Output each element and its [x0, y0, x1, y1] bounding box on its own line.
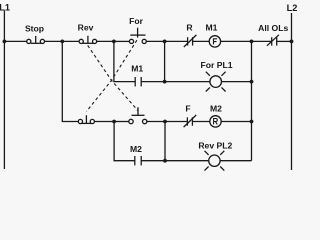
label Rev PL2 [198, 141, 232, 151]
pilot light Rev PL2 [205, 151, 225, 171]
node C3 junction dot [163, 120, 167, 124]
mechanical link For (dashed) [87, 40, 137, 111]
wire rung1 For to node C [146, 40, 164, 42]
svg-text:M1: M1 [206, 23, 218, 33]
relay contact M1 seal-in (NO) [135, 77, 141, 86]
node bus-rung4 junction dot [250, 120, 254, 124]
svg-text:M2: M2 [210, 103, 222, 113]
svg-text:Rev PL2: Rev PL2 [198, 141, 232, 151]
wire rung2 node C2 to lamp PL1 [165, 81, 210, 83]
wire vertical node B2 to rung5 [114, 122, 135, 161]
svg-text:M2: M2 [130, 144, 142, 154]
wire vertical node C3 to rung5 [164, 122, 166, 161]
wire rung4 Rev to node C3 [147, 121, 165, 123]
mechanical link Rev (dashed) [88, 45, 138, 110]
node D junction dot [250, 40, 254, 44]
wire rung5 M2 to node C4 [141, 160, 165, 162]
label M1 coil [206, 23, 218, 33]
wire vertical node B to rung2 [114, 41, 135, 81]
relay contact F (NC) [184, 115, 197, 127]
node A junction dot [60, 40, 64, 44]
wire rung1 Stop to node A [45, 40, 63, 42]
label R [186, 23, 193, 33]
svg-text:Stop: Stop [25, 23, 44, 33]
node B2 junction dot [112, 120, 116, 124]
label L2 [287, 3, 298, 13]
wire rung5 lamp PL2 to bus [220, 160, 251, 162]
relay contact M2 seal-in (NO) [135, 156, 141, 165]
label Rev [78, 23, 94, 33]
svg-text:M1: M1 [131, 64, 143, 74]
label For [129, 16, 143, 26]
power rail L2 [291, 13, 293, 170]
label L1 [0, 2, 10, 12]
wire rung2 M1 to node C2 [141, 81, 164, 83]
wire rung1 R to coil M1 [193, 40, 210, 42]
svg-text:For PL1: For PL1 [201, 60, 233, 70]
wire rung4 coil M2 to bus [221, 121, 251, 123]
node B junction dot [112, 40, 116, 44]
node bus-rung2 junction dot [250, 80, 254, 84]
wire rung2 lamp PL1 to bus [222, 81, 252, 83]
wire rung4 node B2 to Rev NO [114, 121, 129, 123]
overload contact All OLs (NC) [267, 35, 279, 46]
power rail L1 [3, 11, 5, 170]
node L1 junction dot [3, 40, 7, 44]
wire vertical node C to rung2 [164, 41, 166, 81]
svg-text:L1: L1 [0, 2, 10, 12]
wire rung1 L1 to Stop [4, 40, 26, 42]
wire rung1 Rev to node B [97, 40, 114, 42]
node C2 junction dot [163, 80, 167, 84]
label Stop [25, 23, 44, 33]
wire rung1 node D to All OLs [252, 40, 272, 42]
wire rung1 node C to R contact [165, 40, 188, 42]
wire rung1 node A to Rev [62, 40, 79, 42]
wire bus node D down to rung5 [251, 41, 253, 160]
label All OLs [258, 23, 288, 33]
svg-text:L2: L2 [287, 3, 298, 13]
wire vertical node A to rung4 [62, 41, 78, 121]
label For PL1 [201, 60, 233, 70]
wire rung4 For to node B2 [94, 121, 114, 123]
coil M2 (R) [210, 116, 221, 127]
coil M1 (F) [209, 36, 220, 47]
wire rung1 node B to For [114, 40, 129, 42]
svg-text:All OLs: All OLs [258, 23, 288, 33]
pushbutton For NC contact (rung4) [78, 115, 94, 123]
wire rung1 coil M1 to node D [221, 40, 252, 42]
pilot light For PL1 [206, 72, 226, 92]
wire rung1 All OLs to L2 [277, 40, 292, 42]
pushbutton Rev NO contact (rung4) [129, 107, 147, 124]
label M2 coil [210, 103, 222, 113]
svg-text:Rev: Rev [78, 23, 94, 33]
wire rung4 node C3 to F contact [165, 121, 187, 123]
node L2 junction dot [290, 40, 294, 44]
svg-text:R: R [186, 23, 193, 33]
label M2 seal-in [130, 144, 142, 154]
label M1 seal-in [131, 64, 143, 74]
relay contact R (NC) [184, 35, 197, 47]
node C junction dot [163, 40, 167, 44]
wire rung4 F to coil M2 [192, 121, 209, 123]
label F [185, 104, 190, 114]
svg-text:F: F [185, 104, 190, 114]
pushbutton Rev NC contact [79, 36, 97, 44]
wire rung5 node C4 to lamp PL2 [165, 160, 209, 162]
pushbutton For NO contact [129, 28, 146, 44]
svg-text:For: For [129, 16, 143, 26]
pushbutton Stop (NC) [27, 36, 45, 44]
node C4 junction dot [163, 159, 167, 163]
